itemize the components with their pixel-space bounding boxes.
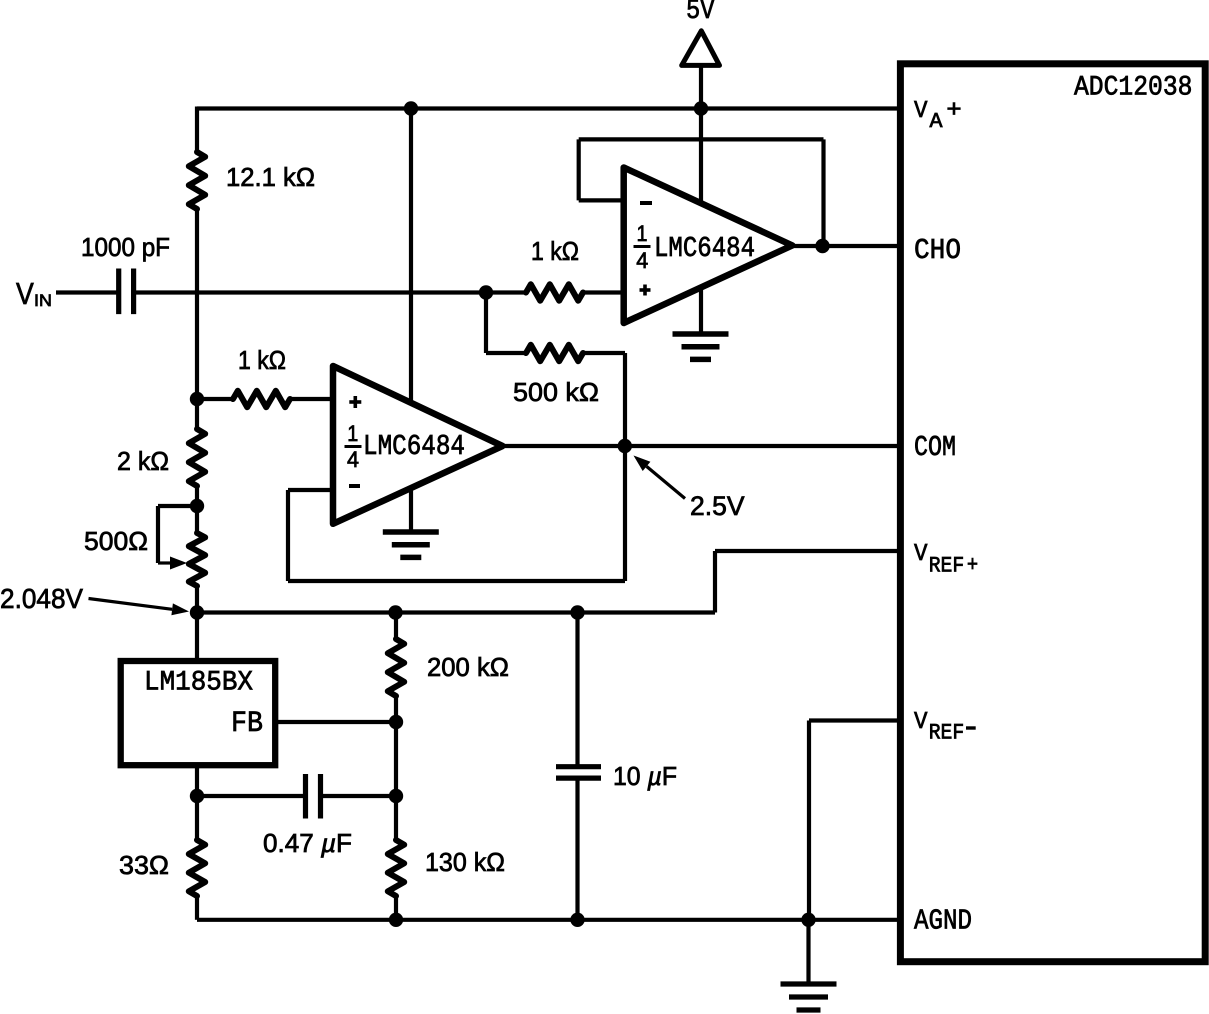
svg-text:500Ω: 500Ω (84, 526, 148, 556)
svg-text:0.47 µF: 0.47 µF (263, 828, 352, 858)
svg-text:V: V (914, 541, 928, 568)
svg-text:LMC6484: LMC6484 (363, 430, 465, 463)
svg-text:1: 1 (637, 221, 648, 246)
svg-text:4: 4 (347, 447, 359, 472)
svg-text:COM: COM (914, 431, 956, 464)
svg-text:2.048V: 2.048V (0, 583, 83, 614)
svg-text:4: 4 (636, 248, 648, 273)
svg-text:130 kΩ: 130 kΩ (425, 847, 505, 877)
svg-text:1 kΩ: 1 kΩ (531, 236, 579, 266)
svg-text:AGND: AGND (914, 905, 972, 938)
svg-text:12.1 kΩ: 12.1 kΩ (226, 162, 315, 192)
svg-text:10 µF: 10 µF (613, 761, 677, 791)
svg-text:+: + (947, 96, 962, 123)
svg-text:REF: REF (929, 554, 965, 579)
svg-text:V: V (914, 709, 928, 736)
svg-text:1000 pF: 1000 pF (81, 232, 170, 262)
svg-text:V: V (914, 98, 928, 125)
svg-text:A: A (930, 110, 943, 134)
svg-text:500 kΩ: 500 kΩ (513, 377, 599, 407)
svg-text:1: 1 (347, 421, 358, 446)
svg-text:+: + (967, 551, 978, 576)
svg-text:200 kΩ: 200 kΩ (427, 652, 509, 682)
svg-text:CHO: CHO (914, 234, 961, 267)
svg-text:33Ω: 33Ω (119, 850, 169, 880)
svg-text:5V: 5V (686, 0, 715, 27)
svg-text:2 kΩ: 2 kΩ (117, 446, 169, 476)
svg-text:LM185BX: LM185BX (144, 668, 253, 699)
svg-text:2.5V: 2.5V (690, 491, 745, 521)
svg-text:FB: FB (231, 707, 263, 741)
svg-text:REF: REF (929, 721, 965, 746)
svg-text:1 kΩ: 1 kΩ (238, 345, 286, 375)
svg-text:IN: IN (34, 292, 52, 310)
svg-text:LMC6484: LMC6484 (654, 232, 755, 265)
svg-text:V: V (16, 276, 34, 311)
svg-text:ADC12038: ADC12038 (1074, 73, 1193, 104)
